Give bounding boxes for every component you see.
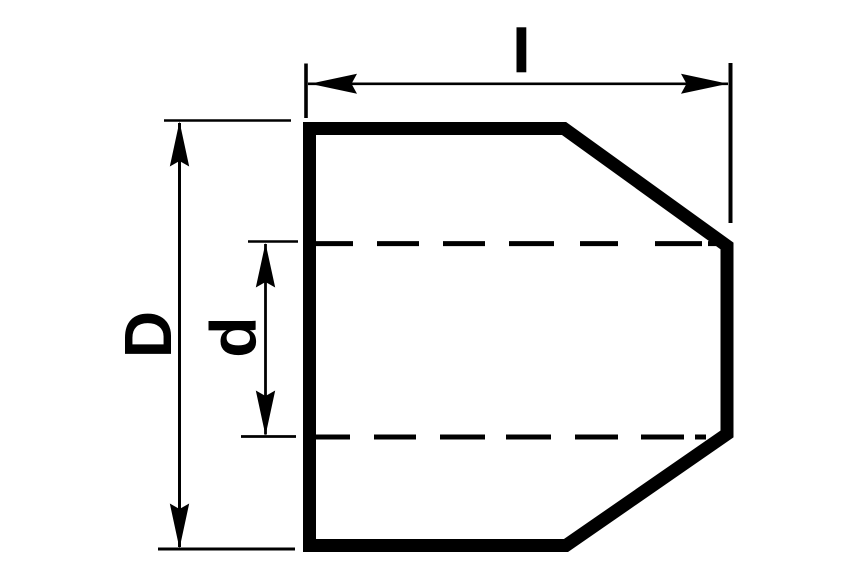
arrowhead d down <box>256 391 275 436</box>
arrowhead D up <box>170 122 189 167</box>
dimension line D <box>178 123 181 547</box>
svg-text:d: d <box>198 316 270 358</box>
arrowhead l right <box>681 74 728 94</box>
centerline lower dashed <box>313 435 350 440</box>
extension line l left <box>304 64 308 119</box>
part outline <box>310 129 728 546</box>
arrowhead D down <box>170 504 189 549</box>
arrowhead l left <box>310 74 357 94</box>
extension line D top <box>164 119 291 122</box>
dimension line d <box>264 244 267 435</box>
extension line l right <box>729 63 733 223</box>
label l <box>517 27 527 72</box>
extension line d top <box>248 240 298 243</box>
extension line D bottom <box>158 548 295 551</box>
extension line d bottom <box>241 435 296 438</box>
svg-text:D: D <box>111 311 186 358</box>
arrowhead d up <box>256 243 275 288</box>
centerline upper dashed <box>313 241 353 246</box>
dimension line l <box>308 83 728 86</box>
